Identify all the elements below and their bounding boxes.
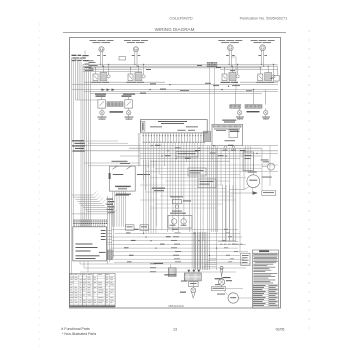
wire top power bus run 3 xyxy=(83,67,262,69)
relay K1 K2 bake broil relays xyxy=(168,211,192,228)
wire left bus fan-out staircase xyxy=(72,192,117,214)
wire left bus top elbows xyxy=(72,58,84,60)
wire top power bus run 4 xyxy=(83,69,142,71)
wire mesh run E xyxy=(120,155,262,157)
limiter L4 with radiant element xyxy=(256,64,275,83)
surface unit P4 (right front) xyxy=(251,40,275,67)
node footer functional parts legend xyxy=(61,327,96,336)
motor M2 cooling fan motor xyxy=(217,293,238,303)
node lamp row center label xyxy=(110,111,124,113)
node quick-disconnect connector J2 xyxy=(207,62,217,66)
node terminal strip TB3 xyxy=(245,105,262,109)
relay K3 DPDT relay xyxy=(181,281,198,287)
wire mid bus run 3 xyxy=(72,89,278,91)
node latch label xyxy=(115,194,129,197)
switch S3 door latch assembly xyxy=(109,161,150,191)
node relay board A2 xyxy=(212,120,243,146)
wire mesh run C xyxy=(80,150,278,152)
node mesh text cluster xyxy=(152,188,165,192)
wire (scan perforation marks left margin) xyxy=(39,23,40,346)
wire P3 elbow feeder xyxy=(231,57,236,91)
surface unit P3 (right rear) xyxy=(218,40,242,67)
node mesh label plate C xyxy=(198,179,216,188)
wire EOC left-side drop wires xyxy=(138,133,143,180)
wire header rule xyxy=(63,31,286,33)
node warning notice block xyxy=(252,250,278,308)
wire mesh extension left xyxy=(84,141,150,166)
node harness connector arrows xyxy=(187,270,200,273)
node right lamp row center label xyxy=(247,111,260,112)
wire mesh run A xyxy=(76,145,278,147)
wire mid-right horizontal runs xyxy=(145,165,278,181)
motor M1 convection fan motor xyxy=(247,172,272,188)
node terminal strip TB2 xyxy=(230,105,241,109)
limiter L1 with radiant element xyxy=(92,64,111,83)
lamp DS4 surface indicator lamp xyxy=(262,110,270,119)
node oven light label plate xyxy=(230,191,276,196)
node mesh junction dots xyxy=(151,145,257,159)
node thermostat label plate xyxy=(211,287,243,291)
wire bottom elbow wires xyxy=(203,259,217,267)
wire left harness short feeders xyxy=(76,58,99,100)
wire relay board drop wires xyxy=(212,149,244,271)
node diagram border frame xyxy=(70,37,281,308)
op-amp U1 electronic oven control EOC xyxy=(140,120,207,133)
wire convection motor leads xyxy=(230,153,253,191)
wire right lamp row connections xyxy=(235,90,265,120)
svg-text:⧖ Functional Parts: ⧖ Functional Parts xyxy=(61,327,90,331)
wire harness verticals right xyxy=(218,185,243,245)
lamp DS2 oven lamp 2 xyxy=(125,110,134,119)
wire (scan perforation marks right margin) xyxy=(309,30,310,328)
svg-text:* Non-Illustrated Parts: * Non-Illustrated Parts xyxy=(62,332,96,336)
capacitor C2 thermal fuse xyxy=(220,266,223,276)
node U1 pin terminals xyxy=(143,133,205,141)
switch S2 oven light switch 2 xyxy=(122,95,133,108)
wire lower mid connections xyxy=(140,185,236,208)
svg-text:3554414C0: 3554414C0 xyxy=(168,304,184,308)
svg-text:Publication No. 5995430271: Publication No. 5995430271 xyxy=(240,17,288,21)
node supply harness label cluster xyxy=(72,51,89,62)
node mesh wire code labels xyxy=(155,145,246,159)
svg-text:CGLEFM97D: CGLEFM97D xyxy=(169,16,193,21)
node mesh label plate B xyxy=(188,168,206,176)
node component box right-mid xyxy=(243,152,254,171)
limiter L2 with radiant element xyxy=(127,64,146,83)
limiter L3 with radiant element xyxy=(221,64,240,83)
node warning wire color table xyxy=(252,285,278,307)
wire mesh run D xyxy=(140,152,278,154)
capacitor C1 motor capacitor xyxy=(180,288,196,298)
svg-text:13: 13 xyxy=(173,328,177,332)
svg-text:02/05: 02/05 xyxy=(276,328,285,332)
lamp DS1 oven lamp xyxy=(98,110,107,119)
wire mesh run G xyxy=(150,160,230,162)
wire mid bus run 4 xyxy=(84,90,278,92)
node mesh label plate A xyxy=(176,152,198,158)
surface unit P2 (left rear) xyxy=(124,40,148,67)
node connectors P10 P11 xyxy=(126,225,149,230)
wire harness dense vertical group xyxy=(194,232,209,270)
node U1 left connector xyxy=(141,122,145,132)
wire bottom-right connections xyxy=(193,276,252,298)
wire left harness bus band B xyxy=(81,62,91,227)
node parts list table xyxy=(69,274,115,308)
wire mesh run B xyxy=(129,147,262,149)
wire top power bus run 1 xyxy=(83,63,278,65)
lamp DS3 warmer indicator lamp xyxy=(236,110,244,119)
node terminal strip TB1 xyxy=(107,102,123,107)
svg-text:WIRING DIAGRAM: WIRING DIAGRAM xyxy=(155,27,195,32)
switch S1 oven light switch xyxy=(96,95,106,108)
wire mesh run F xyxy=(140,158,240,160)
wire right column verticals xyxy=(208,146,271,232)
wire mid bus run 2 xyxy=(72,84,278,86)
wire bottom run group 1 xyxy=(108,229,248,263)
wire mid bus run 1 xyxy=(84,81,165,83)
node frame-edge connector J9 xyxy=(271,76,280,81)
node bus connector arrows xyxy=(95,65,254,95)
wire bottom run group 2 xyxy=(72,227,251,274)
wire left harness bus band A xyxy=(72,58,74,227)
node relay board left connector xyxy=(204,131,211,142)
node left bus wire code labels xyxy=(72,140,85,151)
wire EOC pin drop wires xyxy=(145,141,203,268)
node bus wire code labels xyxy=(85,60,98,70)
node connector J6 xyxy=(154,263,176,277)
wire harness verticals center xyxy=(108,160,157,264)
node fan-out labels xyxy=(115,186,131,195)
wire right edge drop xyxy=(277,66,279,75)
node U2 side connector xyxy=(107,250,112,260)
wire top power bus run 2 xyxy=(83,65,278,67)
node connector J8 xyxy=(241,253,250,265)
surface unit P1 (left front) xyxy=(90,40,114,67)
op-amp U2 surface element control board xyxy=(73,220,107,261)
node connector J7 block xyxy=(164,273,201,281)
wire top power bus run 5 xyxy=(83,70,142,72)
node bottom run wire code labels xyxy=(124,229,217,263)
wire mid bus run 5 xyxy=(90,93,262,95)
node thermostat TCO xyxy=(215,277,232,285)
node inline connector on bus xyxy=(119,57,126,60)
resistor RTD1 oven temperature sensor xyxy=(170,196,191,208)
node U1 pin labels xyxy=(143,141,205,144)
wire latch harness drop bundle xyxy=(113,191,126,227)
wire lamp row connections xyxy=(102,94,129,120)
wire J2 drops to relay board xyxy=(209,67,214,132)
lamp DS5 small indicator right xyxy=(261,160,275,171)
wire U2 right-side stubs xyxy=(107,230,112,242)
node relay board terminals xyxy=(223,146,237,151)
node harness label stack xyxy=(107,199,115,213)
